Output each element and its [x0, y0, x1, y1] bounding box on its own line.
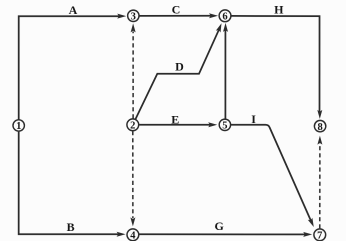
svg-text:E: E — [171, 112, 179, 126]
wire B: node 1 down and right to node 4 — [19, 132, 119, 235]
arrowhead into node 5 (E) — [208, 122, 217, 127]
wire H: node 6 right and down to node 8 — [231, 16, 319, 112]
arrowhead into node 6 (D diagonal) — [216, 23, 222, 32]
svg-text:4: 4 — [130, 230, 136, 241]
svg-text:3: 3 — [131, 11, 136, 22]
svg-text:A: A — [69, 3, 78, 17]
svg-text:1: 1 — [16, 121, 21, 132]
node 4 — [127, 229, 139, 241]
wire F: node 5 up to node 6 — [224, 30, 226, 119]
wire A: node 1 up and right to node 3 — [19, 16, 120, 120]
arrowhead into node 3 (dashed from 2) — [131, 23, 136, 32]
arrowhead into node 7 (G) — [303, 232, 312, 237]
arrowhead into node 4 (B) — [117, 232, 126, 237]
svg-text:B: B — [67, 220, 75, 234]
node 6 — [219, 10, 231, 22]
dashed wire: node 2 up to node 3 — [132, 31, 134, 118]
svg-text:I: I — [251, 112, 256, 126]
node 1 — [13, 120, 24, 131]
node 2 — [127, 119, 139, 131]
arrowhead into node 3 (A) — [117, 14, 126, 19]
node 3 — [128, 10, 139, 21]
wire D: node 2 polyline up to node 6 — [136, 30, 219, 119]
svg-text:H: H — [274, 2, 284, 16]
dashed wire: node 2 down to node 4 — [132, 131, 134, 218]
arrowhead into node 4 (dashed from 2) — [130, 217, 135, 226]
node 8 — [314, 120, 325, 131]
node 5 — [219, 119, 230, 130]
wire E: node 2 to node 5 — [139, 124, 210, 126]
arrowhead into node 6 (from 5) — [223, 23, 228, 32]
svg-text:G: G — [214, 219, 223, 233]
svg-text:2: 2 — [130, 120, 135, 131]
svg-text:8: 8 — [317, 122, 322, 133]
node 7 — [314, 229, 326, 241]
arrowhead into node 7 (I diagonal) — [308, 218, 314, 227]
wire C: node 3 to node 6 — [139, 15, 211, 17]
svg-text:6: 6 — [222, 12, 227, 23]
svg-text:C: C — [172, 2, 181, 16]
svg-text:D: D — [175, 60, 184, 74]
dashed wire: node 7 up to node 8 — [319, 143, 321, 229]
svg-text:5: 5 — [222, 121, 227, 132]
arrowhead into node 8 (H) — [317, 110, 322, 119]
svg-text:7: 7 — [317, 231, 322, 241]
wire I: node 5 right then diagonal down to node 7 — [231, 125, 311, 221]
arrowhead into node 6 (C) — [209, 13, 218, 18]
arrowhead into node 8 (dashed from 7) — [317, 136, 322, 145]
wire G: node 4 to node 7 — [139, 233, 305, 235]
